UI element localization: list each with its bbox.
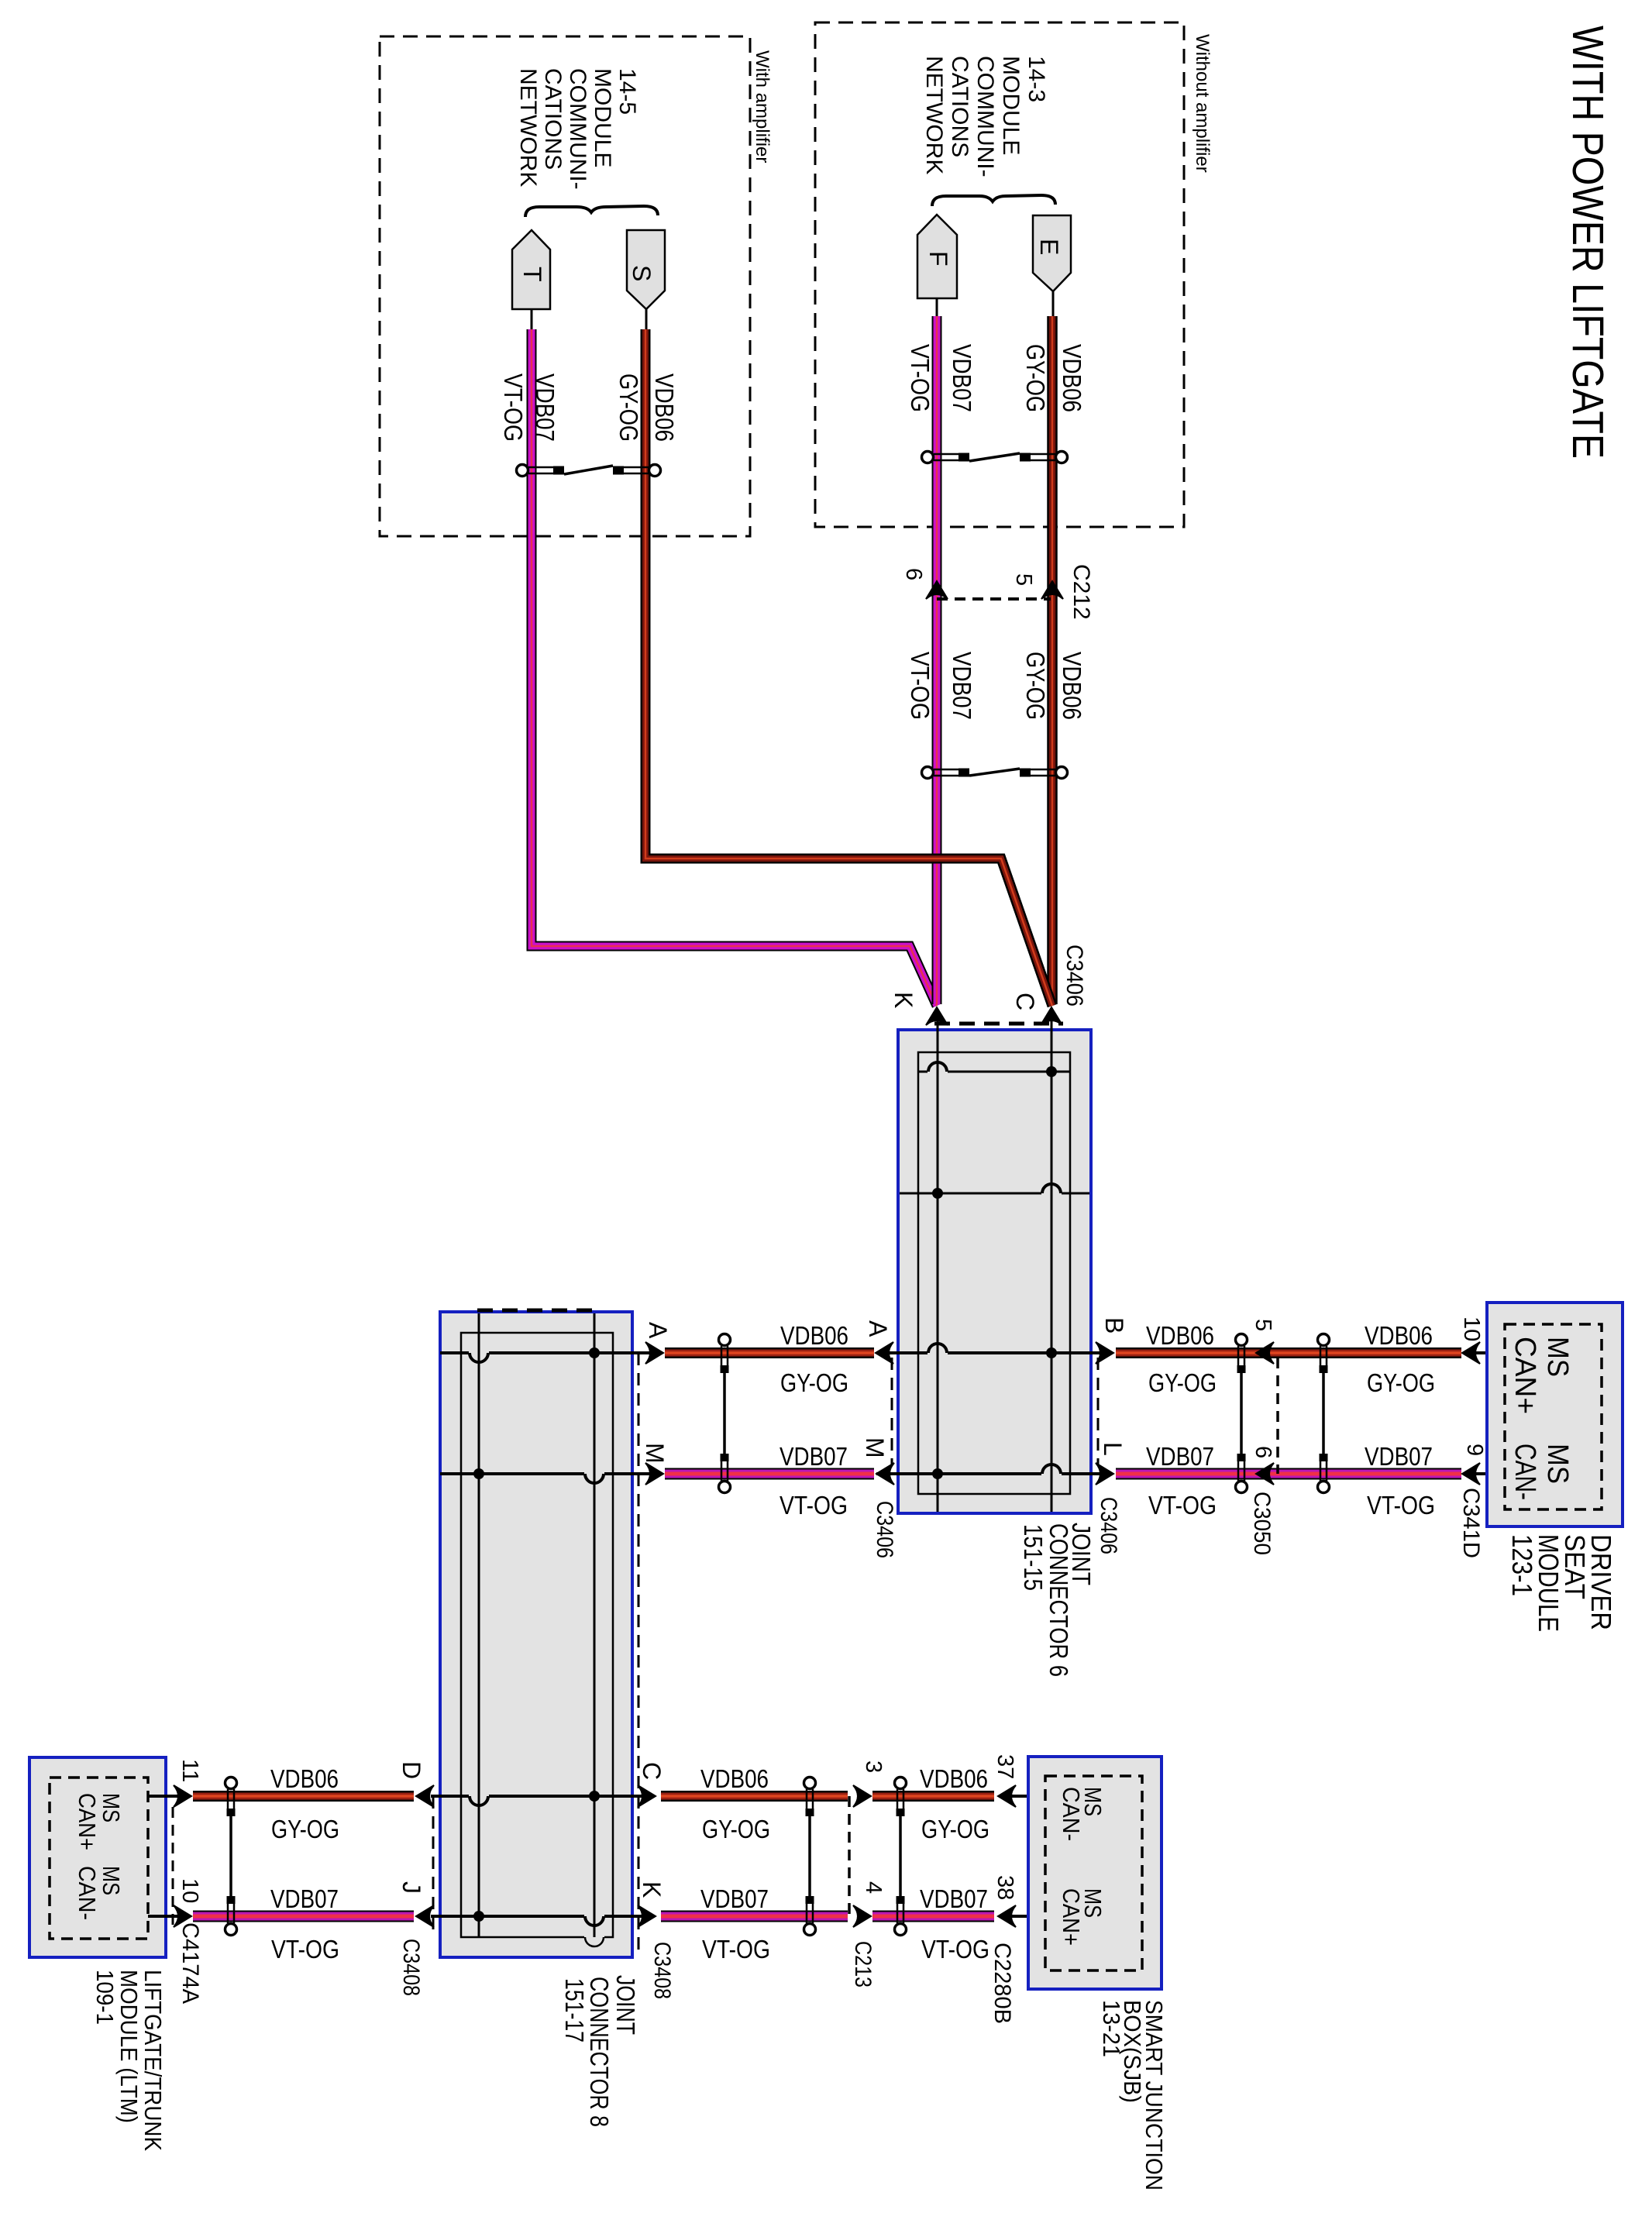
- pin M arrow (jc8): [645, 1463, 663, 1485]
- connector C3406 top dashed face: [934, 1022, 1063, 1026]
- smart junction box: [1028, 1757, 1162, 1989]
- connector C213 dashed face: [848, 1796, 851, 1916]
- jc8 junction dots: [589, 1347, 600, 1358]
- pin C arrow: [1041, 1007, 1062, 1025]
- wire VDB06 (LTM to D): [193, 1791, 414, 1802]
- pin D arrow: [416, 1785, 434, 1807]
- svg-text:VDB06: VDB06: [1365, 1321, 1433, 1350]
- pin A arrow (jc6): [876, 1342, 893, 1364]
- svg-text:D: D: [398, 1761, 425, 1779]
- svg-text:CAN+: CAN+: [74, 1793, 101, 1850]
- svg-text:T: T: [518, 267, 546, 282]
- dashed box With amplifier: [380, 36, 750, 536]
- svg-text:14-3: 14-3: [1024, 56, 1049, 102]
- svg-text:M: M: [641, 1443, 669, 1464]
- LTM pin leads: [148, 1795, 180, 1798]
- svg-text:VDB07: VDB07: [948, 344, 976, 412]
- svg-text:C3408: C3408: [649, 1942, 675, 1999]
- wire VDB06 A (jc8 to jc6): [665, 1347, 874, 1358]
- svg-text:GY-OG: GY-OG: [1021, 344, 1050, 412]
- svg-text:MODULE: MODULE: [590, 68, 615, 167]
- svg-text:MS: MS: [98, 1793, 125, 1822]
- wire VDB07 VT-OG from F (without amplifier): [932, 316, 942, 1004]
- svg-text:123-1: 123-1: [1506, 1534, 1538, 1596]
- joint connector 6 box: [898, 1030, 1091, 1513]
- svg-text:VT-OG: VT-OG: [921, 1935, 989, 1963]
- driver seat module box: [1487, 1303, 1623, 1526]
- jc6 row3 through line (A-B): [876, 1351, 1104, 1354]
- svg-text:F: F: [924, 251, 952, 267]
- svg-text:VDB07: VDB07: [948, 652, 976, 720]
- svg-text:C2280B: C2280B: [989, 1943, 1015, 2024]
- svg-text:GY-OG: GY-OG: [921, 1815, 989, 1843]
- pin 9 arrow (DSM): [1462, 1463, 1480, 1485]
- pin 5 arrow (C212): [1041, 581, 1063, 599]
- connector pin E: [1033, 215, 1071, 291]
- jc8 GY-OG bus: [594, 1313, 596, 1937]
- svg-text:CAN-: CAN-: [1509, 1444, 1541, 1500]
- DSM pin leads: [1476, 1351, 1506, 1354]
- brace right box: [932, 195, 1055, 206]
- svg-text:L: L: [1099, 1442, 1127, 1456]
- connector C3406 left dashed face: [891, 1358, 893, 1464]
- wire VDB07 L (jc6 to DSM): [1116, 1468, 1461, 1480]
- twisted pair (C-K segment): [804, 1778, 816, 1789]
- pin 5 arrow (C3050): [1256, 1342, 1274, 1364]
- pin 10 arrow (LTM): [174, 1905, 191, 1927]
- twisted pair (without amplifier box): [922, 452, 934, 463]
- svg-text:6: 6: [901, 568, 926, 580]
- svg-text:MS: MS: [1541, 1444, 1574, 1484]
- svg-text:VDB07: VDB07: [1146, 1442, 1214, 1471]
- svg-text:VDB07: VDB07: [1365, 1442, 1433, 1471]
- joint connector 8 box: [440, 1312, 632, 1957]
- connector pin F: [917, 215, 957, 298]
- svg-text:CAN+: CAN+: [1509, 1337, 1541, 1414]
- wire VDB07 K (jc8 to C213): [661, 1911, 848, 1922]
- brace left box: [525, 206, 658, 217]
- connector C4174A dashed face: [172, 1807, 174, 1925]
- jc6 row4 through line (M-L): [876, 1472, 1104, 1475]
- driver seat module dashed outline: [1505, 1324, 1602, 1509]
- svg-text:VDB06: VDB06: [270, 1764, 339, 1793]
- jc8 row A stub line: [440, 1351, 655, 1354]
- connector C3408 right dashed face: [638, 1353, 640, 1956]
- liftgate/trunk module box: [29, 1757, 166, 1957]
- svg-text:NETWORK: NETWORK: [515, 68, 541, 187]
- svg-text:5: 5: [1011, 573, 1036, 586]
- svg-text:VT-OG: VT-OG: [1148, 1491, 1217, 1520]
- pin K arrow (jc8): [638, 1905, 656, 1927]
- wire VDB06 GY-OG from S (with amplifier): [645, 329, 1052, 1006]
- pin 38 arrow (SJB): [998, 1905, 1016, 1927]
- svg-text:LIFTGATE/TRUNK: LIFTGATE/TRUNK: [139, 1970, 167, 2151]
- svg-text:B: B: [1100, 1317, 1128, 1334]
- svg-text:C: C: [1011, 993, 1039, 1010]
- svg-text:38: 38: [993, 1875, 1017, 1900]
- svg-text:C3406: C3406: [1062, 945, 1087, 1007]
- svg-text:GY-OG: GY-OG: [271, 1815, 339, 1843]
- svg-text:NETWORK: NETWORK: [921, 56, 947, 174]
- svg-text:C3406: C3406: [872, 1501, 897, 1558]
- svg-text:10: 10: [1459, 1316, 1484, 1341]
- connector pin T: [512, 230, 550, 309]
- pin leads: [531, 309, 533, 330]
- svg-text:A: A: [864, 1320, 892, 1337]
- svg-text:JOINT: JOINT: [611, 1975, 640, 2035]
- svg-text:COMMUNI-: COMMUNI-: [972, 56, 998, 177]
- jc8 row M stub line: [440, 1472, 655, 1475]
- wire VDB06 GY-OG from E (without amplifier): [1047, 316, 1058, 1004]
- svg-text:9: 9: [1462, 1444, 1487, 1456]
- twisted pair (C213-SJB segment): [895, 1778, 907, 1789]
- svg-text:VT-OG: VT-OG: [906, 652, 934, 720]
- twisted pair (below C212): [922, 767, 934, 779]
- svg-text:VDB06: VDB06: [780, 1321, 848, 1350]
- svg-text:5: 5: [1251, 1319, 1275, 1331]
- wire crossing GY-OG over VT-OG: [891, 859, 1052, 1006]
- svg-text:COMMUNI-: COMMUNI-: [565, 68, 590, 190]
- jc6 junction dots: [1046, 1066, 1057, 1077]
- svg-text:MODULE: MODULE: [998, 56, 1024, 155]
- svg-text:6: 6: [1251, 1446, 1275, 1458]
- SJB pin leads: [1011, 1795, 1047, 1798]
- svg-text:GY-OG: GY-OG: [1367, 1368, 1435, 1397]
- svg-text:J: J: [398, 1881, 425, 1894]
- pin 10 arrow (DSM): [1462, 1342, 1480, 1364]
- svg-text:VDB06: VDB06: [700, 1764, 769, 1793]
- svg-text:VDB07: VDB07: [700, 1884, 769, 1913]
- svg-text:C212: C212: [1069, 564, 1094, 620]
- jc6 row2 stub: [900, 1193, 1089, 1195]
- connector C3408 top dashed segment: [477, 1309, 601, 1313]
- svg-text:M: M: [861, 1437, 889, 1458]
- svg-text:VT-OG: VT-OG: [271, 1935, 339, 1963]
- svg-text:VT-OG: VT-OG: [780, 1491, 848, 1520]
- svg-text:WITH POWER LIFTGATE: WITH POWER LIFTGATE: [1563, 26, 1612, 459]
- twisted pair (B-L segment): [1236, 1334, 1248, 1346]
- connector C212 dashed face: [937, 597, 1051, 601]
- pin B arrow: [1096, 1342, 1113, 1364]
- svg-text:GY-OG: GY-OG: [1021, 652, 1050, 720]
- wire VDB07 VT-OG from T (with amplifier): [532, 329, 937, 1006]
- wire VDB07 M (jc8 to jc6): [665, 1468, 874, 1480]
- svg-text:CAN-: CAN-: [1058, 1787, 1085, 1841]
- svg-text:10: 10: [177, 1878, 202, 1903]
- svg-text:With amplifier: With amplifier: [752, 50, 773, 163]
- wire VDB07 (C213 to SJB): [872, 1911, 994, 1922]
- SJB dashed outline: [1045, 1776, 1142, 1970]
- svg-text:C3408: C3408: [398, 1939, 424, 1996]
- wire VDB06 C (jc8 to C213): [661, 1791, 848, 1802]
- jc8 inner outline hop at bus: [584, 1935, 604, 1940]
- svg-text:Without amplifier: Without amplifier: [1192, 34, 1213, 173]
- joint connector 8 inner outline: [461, 1333, 613, 1937]
- pin K arrow: [926, 1007, 948, 1025]
- twisted pair (with amplifier box): [517, 465, 528, 477]
- twisted pair (LTM segment): [225, 1778, 237, 1789]
- pin 6 arrow (C3050): [1256, 1463, 1274, 1485]
- svg-text:3: 3: [861, 1760, 886, 1773]
- pin L arrow: [1096, 1463, 1113, 1485]
- jc6 GY-OG bus (C): [1051, 1009, 1053, 1512]
- twisted pair (5-6 to DSM segment): [1318, 1334, 1330, 1346]
- svg-text:151-15: 151-15: [1019, 1524, 1048, 1591]
- wire VDB06 (C213 to SJB): [872, 1791, 994, 1802]
- pin 6 arrow (C212): [926, 581, 948, 599]
- svg-text:CAN-: CAN-: [74, 1866, 101, 1920]
- svg-text:S: S: [628, 265, 656, 281]
- svg-text:VDB07: VDB07: [780, 1442, 848, 1471]
- svg-text:VDB07: VDB07: [531, 373, 559, 442]
- svg-text:MS: MS: [1541, 1337, 1574, 1377]
- svg-text:K: K: [890, 992, 917, 1008]
- connector pin S: [627, 230, 665, 309]
- connector C3406 right dashed face: [1097, 1358, 1100, 1464]
- svg-text:CAN+: CAN+: [1058, 1888, 1085, 1946]
- svg-text:4: 4: [861, 1881, 886, 1894]
- svg-text:VT-OG: VT-OG: [702, 1935, 770, 1963]
- svg-text:13-21: 13-21: [1098, 2000, 1125, 2057]
- jc6 VT-OG bus (K): [937, 1009, 939, 1512]
- svg-text:VDB06: VDB06: [1058, 344, 1086, 412]
- svg-text:VT-OG: VT-OG: [499, 373, 528, 442]
- svg-text:C341D: C341D: [1458, 1488, 1484, 1558]
- svg-text:VDB06: VDB06: [1058, 652, 1086, 720]
- svg-text:CATIONS: CATIONS: [947, 56, 972, 157]
- svg-text:VDB06: VDB06: [920, 1764, 988, 1793]
- svg-text:GY-OG: GY-OG: [702, 1815, 770, 1843]
- svg-text:C3406: C3406: [1096, 1497, 1121, 1554]
- svg-text:VT-OG: VT-OG: [906, 344, 934, 412]
- svg-text:CONNECTOR 6: CONNECTOR 6: [1045, 1523, 1073, 1677]
- svg-text:MS: MS: [98, 1866, 125, 1895]
- joint connector 6 inner outline: [918, 1052, 1070, 1494]
- LTM dashed outline: [50, 1778, 148, 1939]
- twisted pair (A-M segment): [719, 1334, 731, 1346]
- svg-text:C3050: C3050: [1249, 1492, 1275, 1555]
- svg-text:VDB07: VDB07: [270, 1884, 339, 1913]
- svg-text:C: C: [638, 1762, 666, 1780]
- wire VDB06 B (jc6 to DSM): [1116, 1347, 1461, 1358]
- pin M arrow (jc6): [876, 1463, 894, 1485]
- dashed box Without amplifier: [815, 22, 1184, 527]
- svg-text:CATIONS: CATIONS: [540, 68, 566, 170]
- connector C3408 left dashed face: [432, 1796, 435, 1937]
- svg-text:109-1: 109-1: [91, 1970, 119, 2025]
- pin J arrow: [416, 1905, 434, 1927]
- pin 37 arrow (SJB): [998, 1785, 1016, 1807]
- svg-text:GY-OG: GY-OG: [1148, 1368, 1217, 1397]
- svg-text:37: 37: [993, 1754, 1017, 1779]
- svg-text:C213: C213: [850, 1941, 876, 1988]
- svg-text:MODULE (LTM): MODULE (LTM): [115, 1970, 143, 2123]
- svg-text:E: E: [1035, 239, 1063, 255]
- svg-text:11: 11: [177, 1759, 202, 1782]
- pin 11 arrow (LTM): [174, 1785, 191, 1807]
- jc8 row D through line: [431, 1795, 655, 1798]
- svg-text:151-17: 151-17: [560, 1978, 589, 2043]
- svg-text:GY-OG: GY-OG: [780, 1368, 848, 1397]
- pin C arrow (jc8): [638, 1785, 656, 1807]
- svg-text:K: K: [638, 1881, 666, 1898]
- svg-text:GY-OG: GY-OG: [614, 373, 643, 442]
- svg-text:VDB06: VDB06: [650, 373, 679, 442]
- jc8 VT-OG bus: [478, 1313, 480, 1937]
- svg-text:A: A: [644, 1322, 672, 1339]
- svg-text:VDB06: VDB06: [1146, 1321, 1214, 1350]
- wire VDB07 (LTM to J): [193, 1911, 414, 1922]
- connector C3050 dashed face: [1276, 1358, 1279, 1474]
- jc8 row J through line: [431, 1915, 655, 1918]
- pin 4 arrow (C213): [853, 1905, 871, 1927]
- pin 3 arrow (C213): [853, 1785, 871, 1807]
- svg-text:14-5: 14-5: [614, 68, 640, 115]
- svg-text:VT-OG: VT-OG: [1367, 1491, 1435, 1520]
- jc6 row1 stub: [918, 1071, 1070, 1073]
- pin A arrow (jc8): [645, 1342, 663, 1364]
- svg-text:VDB07: VDB07: [920, 1884, 988, 1913]
- svg-text:C4174A: C4174A: [177, 1922, 203, 2004]
